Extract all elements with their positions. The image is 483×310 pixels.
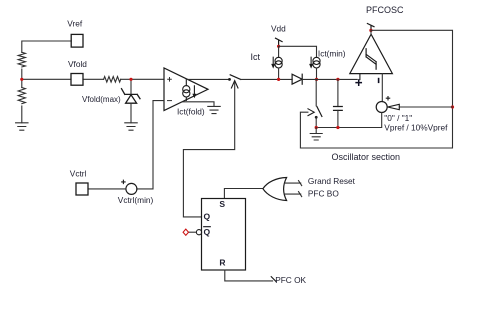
ground oscillator — [310, 128, 322, 141]
svg-text:Vpref / 10%Vpref: Vpref / 10%Vpref — [384, 123, 448, 133]
current arrow inside U1 — [193, 86, 196, 98]
wire SW1 to diode — [241, 78, 292, 80]
arrow slash PFC OK — [271, 277, 276, 282]
marker Vdd — [276, 38, 283, 46]
current source inside U1 — [183, 79, 190, 100]
wire Vdd rail — [279, 46, 317, 57]
svg-text:Ict(min): Ict(min) — [318, 49, 346, 59]
arrow into switch SW2 — [308, 109, 314, 116]
svg-text:PFC BO: PFC BO — [308, 189, 339, 199]
svg-text:Q: Q — [204, 227, 211, 237]
current source Ict — [275, 57, 282, 68]
ground zener — [125, 123, 137, 130]
wire apex feedback loop — [300, 30, 452, 148]
or-gate input PFC BO — [285, 192, 302, 197]
svg-text:PFC OK: PFC OK — [275, 275, 306, 285]
node Ict(min) rail — [315, 78, 318, 81]
summer circle Vctrl(min) — [126, 183, 137, 194]
resistor R2 lower divider — [18, 88, 25, 104]
wire rail node to Vfold port — [22, 78, 71, 80]
hysteresis symbol inside U2 — [366, 49, 376, 69]
node Ict rail — [277, 78, 280, 81]
red diamond Qbar off-page — [183, 229, 188, 235]
arrow into summer S1 — [388, 104, 400, 109]
wire U1 output to switch — [187, 78, 230, 80]
flip-flop U3 body — [202, 199, 246, 271]
svg-text:Oscillator section: Oscillator section — [332, 152, 401, 162]
svg-text:Grand Reset: Grand Reset — [308, 176, 356, 186]
oscillator comparator U2 — [350, 34, 393, 73]
or-gate input Grand Reset — [285, 181, 302, 186]
svg-text:S: S — [219, 199, 225, 209]
marker PFCOSC — [367, 24, 374, 31]
svg-text:Q: Q — [204, 211, 211, 221]
svg-text:Ict(fold): Ict(fold) — [177, 106, 205, 116]
wire SW2 to ground node — [315, 117, 317, 127]
zener diode Vfold(max) cathode wire — [130, 79, 132, 94]
port Vctrl — [76, 183, 88, 195]
ground U1 — [208, 106, 220, 113]
wire Qbar stub — [189, 231, 197, 233]
wire Vref port to divider top — [22, 41, 71, 52]
node PFCOSC apex — [369, 29, 372, 32]
svg-text:Ict: Ict — [251, 52, 261, 62]
svg-text:R: R — [219, 257, 225, 267]
port Vref — [71, 34, 83, 47]
arrow SW1 control — [231, 81, 238, 88]
summer circle S1 — [376, 102, 387, 113]
wire diode to comparator input — [302, 78, 357, 80]
svg-text:Vref: Vref — [67, 18, 83, 28]
ground divider — [16, 123, 28, 130]
wire Ict(min) source to rail — [316, 68, 318, 79]
wire Ict source to rail — [278, 68, 280, 79]
or-gate G1 output wire to S — [224, 189, 263, 199]
comparator minus tick — [378, 79, 380, 83]
switch SW1 contact dot — [228, 78, 231, 81]
wire zener to ground — [130, 103, 132, 123]
node ground rail — [315, 126, 318, 129]
comparator plus input stub — [359, 74, 361, 80]
arrow current source Ict(min) — [310, 57, 313, 68]
node capacitor top — [336, 78, 339, 81]
capacitor C1 — [334, 107, 343, 111]
svg-text:Vdd: Vdd — [271, 24, 286, 34]
svg-text:Vfold: Vfold — [68, 59, 87, 69]
switch SW2 blade — [317, 107, 322, 117]
wire Vfold port to R3 — [83, 78, 104, 80]
wire node to R2 — [21, 79, 23, 87]
resistor R1 upper divider — [18, 52, 25, 67]
wire R2 to ground — [21, 106, 23, 123]
wire R to PFC OK — [225, 270, 273, 281]
wire U1 ground branch — [183, 102, 214, 107]
svg-text:PFCOSC: PFCOSC — [366, 5, 404, 15]
capacitor C1 bottom wire — [337, 110, 339, 127]
node feedback right edge — [451, 105, 454, 108]
node zener Vfold(max) — [129, 78, 132, 81]
arrow current source Ict — [272, 57, 275, 68]
svg-text:Vctrl(min): Vctrl(min) — [118, 195, 154, 205]
diode D1 — [292, 74, 302, 84]
wire summer bottom to bottom rail — [316, 113, 382, 128]
zener diode Vfold(max) — [122, 89, 141, 104]
wire summer to Vctrl port — [88, 188, 126, 190]
port Vfold — [71, 74, 83, 86]
node Vdd junction — [277, 45, 280, 48]
wire SW1 control from flip-flop Q — [183, 83, 234, 217]
svg-text:Vctrl: Vctrl — [70, 169, 87, 179]
node divider Vfold — [20, 78, 23, 81]
op-amp U1 minus input mark — [168, 100, 172, 102]
svg-text:Vfold(max): Vfold(max) — [82, 95, 121, 104]
switch SW2 top wire — [315, 79, 317, 105]
or-gate G1 — [263, 178, 287, 201]
node capacitor bottom — [336, 126, 339, 129]
wire R3 to op-amp plus input — [121, 78, 164, 80]
label Qbar — [204, 227, 211, 238]
capacitor C1 top wire — [337, 79, 339, 106]
plus mark near S1 — [386, 97, 389, 100]
bubble on Qbar output — [196, 230, 201, 235]
comparator plus mark — [356, 80, 361, 85]
switch SW1 blade — [230, 75, 241, 80]
svg-text:"0" / "1": "0" / "1" — [384, 113, 412, 123]
wire minus input to Vctrl summer — [137, 101, 164, 189]
switch SW2 contact dot — [315, 116, 318, 119]
op-amp U1 OTA body — [164, 68, 208, 111]
resistor R3 foldback — [104, 77, 121, 83]
plus mark near summer — [122, 180, 125, 183]
wire comparator output to summer — [381, 74, 383, 102]
wire R1 to node Vfold — [21, 69, 23, 79]
current source Ict(min) — [313, 57, 320, 68]
wire feedback to summer arrow — [399, 106, 452, 108]
op-amp U1 plus input mark — [168, 78, 172, 82]
